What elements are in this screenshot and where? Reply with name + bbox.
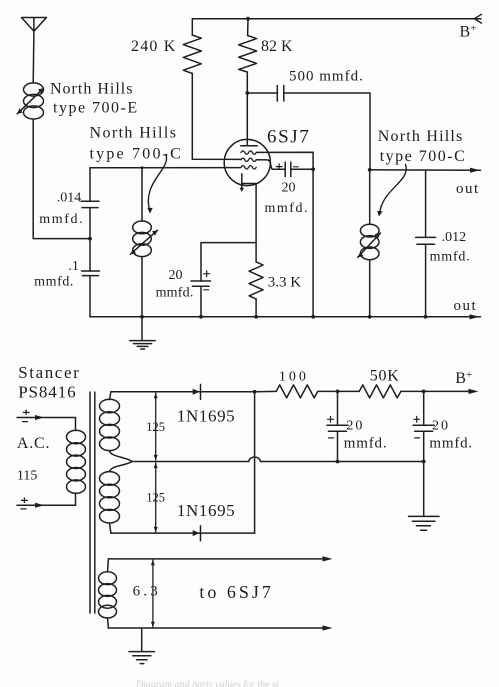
transformer T1 primary <box>67 418 86 506</box>
svg-text:Stancer: Stancer <box>18 363 80 382</box>
label 20 mmfd filter 1 <box>344 419 388 452</box>
svg-text:type 700-C: type 700-C <box>90 146 184 163</box>
label North Hills 700-C left <box>90 125 184 163</box>
ground GND2 <box>409 516 440 530</box>
svg-text:B+: B+ <box>460 23 477 41</box>
svg-text:20: 20 <box>432 419 450 434</box>
diode D2 1N1695 <box>193 526 201 541</box>
label North Hills 700-E <box>50 81 139 117</box>
capacitor C4 20 mmfd screen bypass <box>256 160 313 177</box>
wire cap2 to ground <box>423 462 425 516</box>
wire ground rail bottom of top section <box>90 314 481 319</box>
capacitor C1 .014 mmfd <box>81 168 99 239</box>
wire out line top <box>368 168 481 173</box>
diode D1 1N1695 <box>193 384 201 399</box>
svg-text:mmfd.: mmfd. <box>34 275 74 290</box>
svg-text:.1: .1 <box>68 259 79 274</box>
label Stancer PS8416 <box>18 363 80 402</box>
capacitor C7 20 mmfd filter 1 <box>327 390 348 462</box>
svg-text:.014: .014 <box>57 191 82 206</box>
resistor R5 50K <box>338 385 479 398</box>
svg-text:B+: B+ <box>455 369 472 387</box>
svg-text:Diagram and parts values for t: Diagram and parts values for the si <box>135 680 279 687</box>
node junction left column <box>88 237 92 241</box>
svg-text:mmfd.: mmfd. <box>429 436 473 452</box>
terminal A.C. top with arrow <box>17 410 76 422</box>
label 20 mmfd cathode <box>156 268 194 301</box>
svg-text:A.C.: A.C. <box>17 435 50 452</box>
wire rectifier join vertical <box>253 390 257 533</box>
ground GND3 <box>129 628 154 664</box>
transformer core <box>90 392 95 613</box>
coil L2 North Hills type 700-C left <box>130 168 157 317</box>
arrow from label to coil L3 <box>377 165 406 217</box>
svg-text:type 700-E: type 700-E <box>53 100 139 117</box>
wire cathode <box>201 184 256 243</box>
svg-text:6.3: 6.3 <box>133 584 161 600</box>
node coil L2 top <box>141 166 144 169</box>
transformer secondary winding top 125 <box>100 392 133 462</box>
label .014 mmfd <box>39 191 84 228</box>
svg-text:20: 20 <box>346 419 364 434</box>
capacitor C3 500 mmfd <box>247 86 370 170</box>
resistor R1 240K <box>183 19 240 160</box>
svg-text:240 K: 240 K <box>131 38 177 55</box>
resistor R2 82K <box>239 17 257 146</box>
svg-text:50K: 50K <box>370 368 400 385</box>
svg-text:out: out <box>456 181 480 197</box>
svg-text:mmfd.: mmfd. <box>156 286 194 301</box>
coil L3 North Hills type 700-C right <box>358 170 381 317</box>
capacitor C5 20 mmfd cathode bypass <box>191 243 211 317</box>
svg-text:North Hills: North Hills <box>378 128 464 145</box>
svg-text:mmfd.: mmfd. <box>39 212 84 227</box>
svg-text:type 700-C: type 700-C <box>380 148 467 165</box>
svg-text:1N1695: 1N1695 <box>177 501 235 520</box>
dimension arrow 6.3 <box>151 560 155 627</box>
wire 6.3 line bottom <box>108 625 332 630</box>
svg-text:mmfd.: mmfd. <box>430 250 471 265</box>
svg-text:mmfd.: mmfd. <box>265 201 309 216</box>
label 20 mmfd screen <box>265 181 309 217</box>
label 20 mmfd filter 2 <box>429 419 473 452</box>
capacitor C6 .012 mmfd <box>416 170 436 317</box>
svg-text:1N1695: 1N1695 <box>177 407 235 426</box>
coil L1 North Hills type 700-E <box>17 83 43 119</box>
svg-text:20: 20 <box>169 268 183 283</box>
capacitor C8 20 mmfd filter 2 <box>413 390 434 462</box>
antenna <box>22 18 47 84</box>
wire top rectifier line <box>111 391 255 393</box>
svg-text:out: out <box>454 298 478 314</box>
resistor R3 3.3K <box>249 243 263 317</box>
svg-text:500 mmfd.: 500 mmfd. <box>289 69 364 85</box>
winding 6.3 <box>99 559 117 628</box>
capacitor C2 .1 mmfd <box>82 239 100 317</box>
label .1 mmfd <box>34 259 79 290</box>
svg-text:mmfd.: mmfd. <box>344 436 388 452</box>
label North Hills 700-C right <box>378 128 466 165</box>
wire B+ top rail <box>192 18 481 20</box>
dimension arrow 125 bottom <box>154 463 158 533</box>
svg-text:North Hills: North Hills <box>90 125 178 142</box>
svg-text:6SJ7: 6SJ7 <box>267 127 310 148</box>
arrow from label to coil L2 <box>147 155 166 214</box>
transformer secondary winding bottom 125 <box>100 462 133 534</box>
svg-text:115: 115 <box>17 469 37 484</box>
svg-text:to 6SJ7: to 6SJ7 <box>199 582 274 602</box>
arrowhead B+ rail <box>474 14 481 23</box>
tube V1 6SJ7 <box>224 139 270 192</box>
wire 6.3 line top <box>108 556 332 561</box>
svg-text:100: 100 <box>279 370 309 385</box>
svg-text:.012: .012 <box>442 230 467 245</box>
label .012 mmfd <box>430 230 471 265</box>
wire bottom rectifier line <box>111 532 255 534</box>
svg-text:PS8416: PS8416 <box>18 383 76 402</box>
wire antenna coil to cap junction <box>33 119 90 239</box>
svg-text:North Hills: North Hills <box>50 81 133 98</box>
svg-text:125: 125 <box>146 491 165 505</box>
svg-text:3.3 K: 3.3 K <box>268 275 302 291</box>
terminal A.C. bottom with arrow <box>17 498 76 509</box>
wire suppressor grid to ground rail <box>257 152 316 318</box>
svg-text:20: 20 <box>282 181 296 196</box>
svg-text:82 K: 82 K <box>261 38 293 55</box>
ground GND1 <box>130 317 155 349</box>
svg-text:125: 125 <box>146 420 165 434</box>
wire center tap B- line with hop <box>132 457 426 463</box>
wire grid line (box top) <box>90 167 241 169</box>
dimension arrow 125 top <box>154 393 158 461</box>
resistor R4 100 <box>255 385 338 398</box>
